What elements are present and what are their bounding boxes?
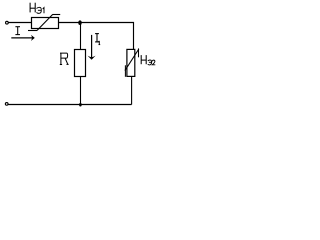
НЭ1 diagonal top tail <box>52 14 60 16</box>
terminal T2 (bottom left) <box>5 103 8 106</box>
НЭ1 diagonal bottom tail <box>28 30 37 32</box>
riser from bottom wire up to НЭ2 <box>131 76 133 104</box>
label I (current into НЭ1) <box>15 27 20 35</box>
node A junction dot (top) <box>78 20 81 25</box>
nonlinear element НЭ1 body <box>32 18 59 29</box>
НЭ2 diagonal top tail <box>138 48 140 57</box>
wire stub from node A down to R <box>80 23 82 50</box>
resistor R body <box>75 50 86 77</box>
label I1 <box>95 34 100 45</box>
wire top-left <box>9 22 32 24</box>
wire top-right and right drop to НЭ2 <box>59 23 134 50</box>
НЭ2 diagonal bottom tail <box>124 65 126 77</box>
wire stub from R down to bottom wire <box>80 77 82 105</box>
bottom wire <box>8 104 131 106</box>
label R <box>60 53 69 64</box>
node B junction dot (bottom) <box>79 103 82 107</box>
НЭ2 diagonal stroke <box>125 49 139 71</box>
nonlinear element НЭ2 body <box>127 49 135 76</box>
label НЭ2 <box>141 55 155 65</box>
label НЭ1 <box>30 3 44 14</box>
current arrow I (top left) <box>11 35 35 41</box>
current arrow I1 (down through R) <box>88 35 96 60</box>
terminal T1 (top left) <box>6 21 9 24</box>
НЭ1 diagonal stroke <box>37 15 53 31</box>
